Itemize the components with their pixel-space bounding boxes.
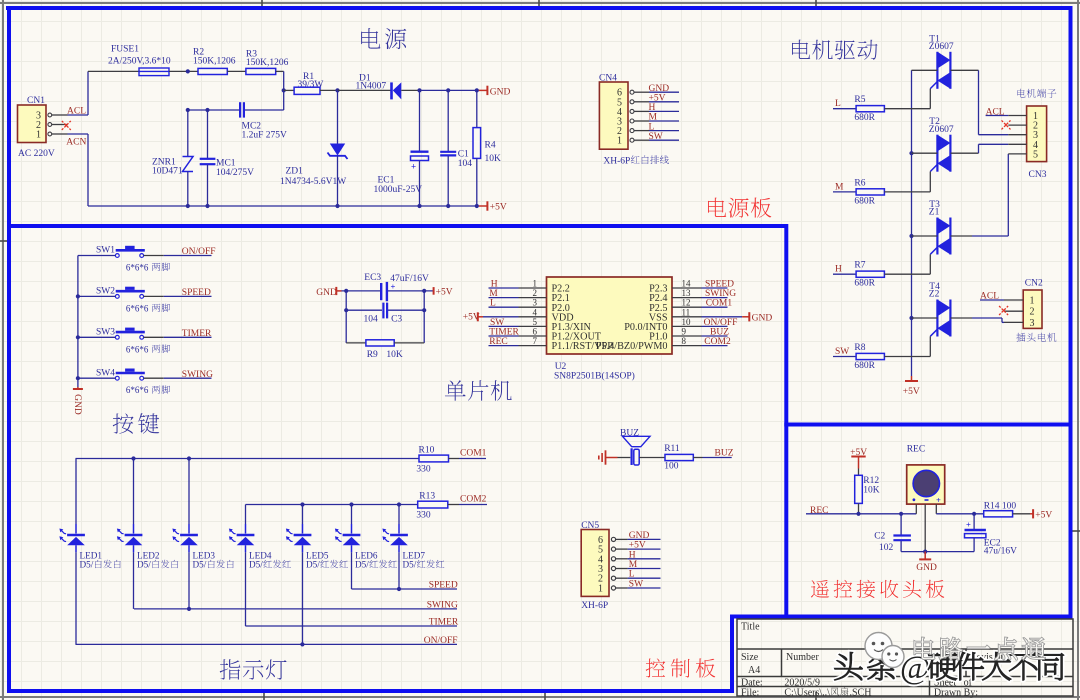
svg-text:GND: GND (72, 394, 82, 415)
wire net H to U2 pin 1 (489, 287, 519, 289)
svg-text:REC: REC (489, 337, 507, 347)
svg-text:9: 9 (682, 327, 687, 337)
svg-text:8: 8 (682, 336, 687, 346)
svg-text:47u/16V: 47u/16V (984, 547, 1017, 557)
svg-text:SW: SW (629, 580, 643, 590)
wire switch common rail (77, 256, 79, 388)
wire U2 pin 12 to net COM1 (702, 306, 728, 308)
wire fuse to R2 (169, 70, 198, 72)
buzzer BUZ (620, 428, 650, 465)
node ZNR1 bottom (186, 204, 190, 208)
no-connect X on CN2 pin2 (999, 306, 1008, 315)
wire LED1 anode/cathode columns (75, 459, 77, 525)
wire CN5 pin 1 net SW (628, 587, 661, 589)
svg-text:100: 100 (664, 462, 679, 472)
board label 遥控接收头板 (811, 580, 829, 598)
svg-text:4: 4 (533, 307, 538, 317)
svg-text:SWING: SWING (182, 370, 213, 380)
wire net SW to U2 pin 5 (489, 325, 519, 327)
svg-text:TIMER: TIMER (489, 328, 519, 338)
connector CN5 (581, 521, 627, 611)
svg-text:47uF/16V: 47uF/16V (390, 274, 429, 284)
svg-text:14: 14 (682, 279, 692, 289)
wire LED4 anode/cathode columns (245, 505, 247, 525)
node LED3/COM1 (187, 456, 191, 460)
wire GND row (remote) (901, 551, 974, 553)
pin 7 P1.1/RST/VPP (519, 345, 547, 347)
svg-text:File:: File: (741, 688, 759, 699)
svg-text:2A/250V,3.6*10: 2A/250V,3.6*10 (108, 57, 171, 67)
wire T2 MT1 (912, 152, 938, 154)
wire U2 pin 9 to net BUZ (702, 335, 728, 337)
svg-text:2: 2 (533, 288, 538, 298)
capacitor MC2 (240, 102, 287, 140)
triac T3 Z1 (929, 200, 951, 255)
svg-text:GND: GND (916, 563, 937, 573)
wire CN5 pin 4 net H (628, 558, 661, 560)
svg-text:P5.4/BZ0/PWM0: P5.4/BZ0/PWM0 (596, 341, 668, 352)
wire +5V rail (bottom of power section) (88, 205, 479, 207)
svg-text:D5/: D5/ (306, 560, 320, 570)
svg-text:12: 12 (682, 298, 691, 308)
svg-text:L: L (629, 570, 635, 580)
resistor R5 (854, 95, 884, 123)
board label 电源板 (708, 198, 726, 217)
svg-text:Number: Number (786, 652, 819, 663)
triac T2 Z0607 (929, 117, 954, 172)
wire CN4 pin 2 net L (649, 130, 679, 132)
connector CN1 (18, 96, 68, 159)
node LED2/COM1 (131, 456, 135, 460)
switch SW4 (96, 368, 170, 395)
wire rail to SW1 (78, 255, 116, 257)
triac T4 Z2 (929, 282, 951, 337)
svg-text:GND: GND (490, 88, 511, 98)
svg-text:SPEED: SPEED (429, 581, 458, 591)
svg-text:1: 1 (533, 279, 538, 289)
svg-text:M: M (649, 113, 658, 123)
svg-text:SN8P2501B(14SOP): SN8P2501B(14SOP) (554, 370, 635, 381)
section title 电机驱动 (792, 40, 810, 59)
svg-text:D5/: D5/ (137, 560, 151, 570)
svg-text:10K: 10K (386, 350, 403, 360)
svg-text:6: 6 (533, 327, 538, 337)
LED LED5 (286, 529, 348, 570)
svg-text:REC: REC (907, 445, 925, 455)
svg-text:COM1: COM1 (706, 299, 733, 309)
wire net COM1 (459, 458, 486, 460)
resistor R8 (854, 343, 884, 371)
svg-text:104: 104 (364, 315, 379, 325)
svg-text:R5: R5 (854, 95, 865, 105)
wire net SPEED row (352, 588, 458, 590)
pin 12 P2.5 (672, 306, 702, 308)
svg-text:H: H (835, 265, 842, 275)
svg-text:680R: 680R (854, 279, 875, 289)
op-amp U2 MCU SN8P2501B (519, 277, 702, 381)
node C3 right (422, 308, 426, 312)
svg-text:Z0607: Z0607 (929, 125, 954, 135)
resistor R7 (854, 261, 884, 289)
wire ground to buzzer (618, 457, 631, 459)
svg-text:10K: 10K (863, 486, 880, 496)
wire R6 to triac gate (884, 191, 930, 193)
svg-text:6*6*6: 6*6*6 (126, 385, 149, 395)
switch SW1 (96, 246, 170, 273)
triac T1 Z0607 (929, 34, 954, 89)
connector CN2 (1004, 279, 1056, 342)
svg-text:TIMER: TIMER (182, 329, 212, 339)
svg-text:680R: 680R (854, 361, 875, 371)
node LED3/SWING (187, 607, 191, 611)
svg-text:D5/: D5/ (193, 560, 207, 570)
svg-text:M: M (629, 560, 638, 570)
node T3 MT1 (909, 234, 913, 238)
svg-text:10D471: 10D471 (152, 167, 183, 177)
wire CN5 pin 3 net M (628, 568, 661, 570)
svg-text:Z1: Z1 (929, 208, 940, 218)
svg-text:R12: R12 (863, 476, 879, 486)
wire CN5 pin 6 net GND (628, 538, 661, 540)
LED LED4 (229, 529, 291, 570)
svg-text:ACN: ACN (66, 138, 86, 148)
wire T1 MT1 to +5V rail (912, 69, 938, 71)
wire CN1 pin3 to fuse rail (68, 114, 89, 116)
svg-text:1: 1 (598, 584, 603, 595)
svg-text:102: 102 (879, 543, 894, 553)
svg-text:R6: R6 (854, 178, 865, 188)
diode D1 1N4007 (338, 74, 420, 100)
resistor R6 (854, 178, 884, 206)
wire M net stub (833, 191, 856, 193)
title block texts (741, 622, 1006, 699)
svg-text:SWING: SWING (705, 289, 736, 299)
wire T4 MT2 to CN2 pin3 (951, 317, 972, 319)
svg-text:GND: GND (752, 313, 773, 323)
wire net ON/OFF row (76, 643, 458, 645)
capacitor C2 (874, 514, 911, 553)
svg-text:SW: SW (490, 318, 504, 328)
svg-text:D5/: D5/ (355, 560, 369, 570)
resistor R12 (855, 469, 880, 514)
varistor ZNR1 (152, 110, 193, 206)
wire GND row to EC3 (342, 290, 381, 292)
svg-text:CN2: CN2 (1025, 279, 1043, 289)
svg-text:R9: R9 (367, 350, 378, 360)
node ZD1 top (335, 88, 339, 92)
resistor R9 (346, 340, 424, 360)
pin 9 P1.0 (672, 335, 702, 337)
wire CN4 pin 4 net H (649, 110, 679, 112)
IR receiver REC (907, 445, 945, 552)
svg-text:150K,1206: 150K,1206 (246, 58, 289, 68)
svg-text:330: 330 (416, 465, 431, 475)
wire rail to SW4 (78, 377, 116, 379)
pin 10 P0.0/INT0 (672, 325, 702, 327)
pin 6 P1.2/XOUT (519, 335, 547, 337)
svg-text:D5/: D5/ (403, 560, 417, 570)
wire R11 to net BUZ (693, 457, 702, 459)
node R12 bottom (856, 512, 860, 516)
watermark 头条@硬件大不同 (dark) (834, 650, 1063, 686)
section title 按键 (113, 413, 134, 433)
section title 电源 (361, 28, 380, 49)
svg-text:ON/OFF: ON/OFF (424, 636, 458, 646)
svg-text:MC1: MC1 (216, 159, 236, 169)
svg-text:GND: GND (316, 288, 337, 298)
pin 8 P5.4/BZ0/PWM0 (672, 345, 702, 347)
wire T4 MT1 (912, 317, 938, 319)
switch SW2 (96, 287, 170, 314)
svg-text:104/275V: 104/275V (216, 168, 254, 178)
node ZD1 bottom (335, 204, 339, 208)
wire C3 row (346, 309, 382, 311)
wire rail to SW2 (78, 295, 116, 297)
node C3 left (344, 308, 348, 312)
wire SW1 to net ON/OFF (144, 255, 164, 257)
resistor R1 (284, 72, 338, 94)
resistor R14 (984, 502, 1030, 517)
wire LED3 anode/cathode columns (188, 459, 190, 525)
svg-text:CN1: CN1 (27, 96, 45, 106)
wire net REC to U2 pin 7 (489, 345, 519, 347)
svg-text:+5V: +5V (1035, 510, 1052, 520)
no-connect X on CN3 pin2 (1002, 120, 1011, 129)
svg-text:+5V: +5V (436, 288, 453, 298)
wire SW4 to net SWING (144, 377, 164, 379)
wire U2 pin 8 to net COM2 (702, 345, 728, 347)
pin 5 P1.3/XIN (519, 325, 547, 327)
svg-text:M: M (835, 182, 844, 192)
svg-text:C2: C2 (874, 532, 885, 542)
svg-text:ON/OFF: ON/OFF (704, 318, 738, 328)
power port +5V (power rail right) (479, 201, 507, 212)
svg-text:SW: SW (649, 132, 663, 142)
no-connect X on CN1 pin 2 (62, 121, 71, 130)
svg-text:XH-6P: XH-6P (603, 157, 630, 167)
wire REC row (806, 513, 916, 515)
LED LED7 (382, 529, 444, 570)
node C1 bottom (446, 204, 450, 208)
node LED5/ONOFF (300, 642, 304, 646)
power port GND (switch rail) (72, 387, 83, 415)
wire T1 MT2 to CN3 pin3 (951, 69, 979, 71)
pin 13 P2.4 (672, 297, 702, 299)
node MC1 top (205, 108, 209, 112)
node T4 MT1 (909, 316, 913, 320)
node R4 top (475, 88, 479, 92)
svg-text:680R: 680R (854, 113, 875, 123)
wire buzzer to R11 (639, 457, 665, 459)
capacitor MC1 (200, 110, 254, 206)
wire SW net stub (833, 356, 856, 358)
svg-text:150K,1206: 150K,1206 (193, 57, 236, 67)
wire L net stub (833, 108, 856, 110)
svg-text:1: 1 (617, 136, 622, 147)
wire net TIMER row (245, 625, 457, 627)
wire CN4 pin 6 net GND (649, 91, 679, 93)
svg-text:AC 220V: AC 220V (18, 149, 55, 159)
svg-text:COM1: COM1 (460, 448, 487, 458)
node R4 bottom (475, 204, 479, 208)
svg-text:GND: GND (649, 84, 670, 94)
svg-text:10K: 10K (485, 154, 502, 164)
pin 4 VDD (519, 316, 547, 318)
wire net M to U2 pin 2 (489, 297, 519, 299)
svg-text:2: 2 (1030, 307, 1035, 318)
svg-text:D5/: D5/ (80, 560, 94, 570)
node EC2 top (972, 512, 976, 516)
svg-text:R13: R13 (419, 491, 435, 501)
svg-text:7: 7 (533, 336, 538, 346)
wire GND rail (top) (420, 89, 479, 91)
wire net COM2 (459, 504, 487, 506)
capacitor C1 (440, 90, 472, 206)
wire CN4 pin 1 net SW (649, 139, 679, 141)
board label 控制板 (646, 659, 666, 678)
wire net TIMER to U2 pin 6 (489, 335, 519, 337)
pin 14 P2.3 (672, 287, 702, 289)
svg-text:L: L (490, 299, 496, 309)
wire EC3 cluster verticals (345, 291, 347, 343)
svg-text:SW2: SW2 (96, 287, 115, 297)
wire REC right pin to R14 (936, 513, 983, 515)
wire SW2 to net SPEED (144, 295, 164, 297)
node MC1 bottom (205, 204, 209, 208)
wire CN5 pin 5 net +5V (628, 548, 661, 550)
section title 指示灯 (220, 659, 241, 679)
svg-text:L: L (835, 99, 841, 109)
svg-text:GND: GND (629, 531, 650, 541)
svg-text:5: 5 (1033, 149, 1038, 160)
wire CN1 pin1 to bottom rail (68, 133, 89, 135)
node ZNR1 top (186, 108, 190, 112)
wire R2 to R3 (227, 70, 246, 72)
svg-text:FUSE1: FUSE1 (111, 45, 139, 55)
svg-text:1N4734-5.6V1W: 1N4734-5.6V1W (280, 177, 346, 187)
svg-text:CN3: CN3 (1029, 170, 1047, 180)
node EC3 left (344, 289, 348, 293)
svg-text:6*6*6: 6*6*6 (126, 263, 149, 273)
wire +5V rail (triac MT1 rail) (911, 70, 913, 376)
LED LED3 (172, 529, 233, 570)
svg-text:6*6*6: 6*6*6 (126, 303, 149, 313)
svg-text:H: H (629, 550, 636, 560)
LED LED6 (335, 529, 397, 570)
node LED7/SPEED (397, 587, 401, 591)
svg-text:+: + (411, 162, 416, 172)
node LED6/COM2 (349, 502, 353, 506)
svg-text:R4: R4 (485, 141, 496, 151)
svg-text:SW1: SW1 (96, 246, 115, 256)
node rail/SW4 (76, 376, 80, 380)
svg-text:Title: Title (741, 622, 760, 633)
svg-text:ON/OFF: ON/OFF (182, 247, 216, 257)
svg-text:COM2: COM2 (460, 494, 487, 504)
svg-text:3: 3 (1030, 318, 1035, 329)
electrolytic capacitor EC2 (965, 514, 1018, 557)
wire R8 to triac gate (884, 356, 930, 358)
capacitor C3 (364, 303, 403, 325)
ground symbol (buzzer) (599, 450, 618, 464)
svg-text:1: 1 (1030, 296, 1035, 307)
switch SW3 (96, 328, 170, 355)
svg-text:R10: R10 (419, 445, 435, 455)
svg-text:C3: C3 (391, 315, 402, 325)
node LED7/COM2 (397, 502, 401, 506)
wire CN4 pin 5 net +5V (649, 101, 679, 103)
section title 单片机 (445, 380, 466, 400)
node fuse/R2 junction (186, 69, 190, 73)
svg-text:+: + (936, 495, 941, 505)
svg-text:R7: R7 (854, 261, 865, 271)
power port GND (U2 VSS) (742, 312, 772, 323)
wire U2 pin 13 to net SWING (702, 297, 728, 299)
wire rail to SW3 (78, 336, 116, 338)
svg-text:11: 11 (682, 307, 691, 317)
power port +5V (U2 VDD pin4) (463, 312, 519, 322)
wire CN5 pin 2 net L (628, 577, 661, 579)
svg-text:SW3: SW3 (96, 328, 115, 338)
power port GND (right of power rail) (479, 86, 511, 98)
svg-text:10: 10 (682, 317, 692, 327)
wire CN4 pin 3 net M (649, 120, 679, 122)
wire net SWING row (134, 608, 457, 610)
power port GND (remote) (916, 552, 937, 573)
svg-text:EC3: EC3 (364, 273, 381, 283)
svg-text:TIMER: TIMER (429, 618, 459, 628)
svg-text:SPEED: SPEED (705, 280, 734, 290)
fuse FUSE1 (88, 45, 171, 76)
svg-text:REC: REC (810, 506, 828, 516)
resistor R13 (416, 491, 459, 520)
connector CN4 (599, 74, 669, 167)
resistor R4 (473, 90, 501, 206)
svg-text:.SCH: .SCH (850, 688, 872, 699)
LED LED1 (59, 529, 120, 570)
node rail/SW2 (76, 294, 80, 298)
svg-text:C:\Users\..\: C:\Users\..\ (784, 688, 830, 699)
svg-text:EC1: EC1 (378, 176, 395, 186)
wire LED2 anode/cathode columns (133, 459, 135, 525)
resistor R10 (416, 445, 459, 474)
node LED5/COM2 (300, 502, 304, 506)
node C1 top (446, 88, 450, 92)
wire R7 to triac gate (884, 273, 930, 275)
wire ACL to CN2 pin1 (980, 299, 1004, 301)
svg-text:A4: A4 (748, 665, 760, 676)
node rail/SW3 (76, 335, 80, 339)
svg-text:+: + (391, 282, 396, 292)
svg-text:M: M (489, 289, 498, 299)
wire SW3 to net TIMER (144, 336, 164, 338)
wire H net stub (833, 273, 856, 275)
svg-text:1000uF-25V: 1000uF-25V (374, 185, 423, 195)
pin 11 VSS (672, 316, 702, 318)
svg-text:Z2: Z2 (929, 290, 940, 300)
svg-text:R8: R8 (854, 343, 865, 353)
title block table (737, 619, 1073, 696)
node EC1 bottom (417, 204, 421, 208)
node T2 MT1 (909, 151, 913, 155)
pin 3 P2.0 (519, 306, 547, 308)
node EC3 right (422, 289, 426, 293)
svg-text:+5V: +5V (649, 94, 666, 104)
node R1 left (282, 88, 286, 92)
LED LED2 (117, 529, 178, 570)
connector CN3 电机端子 (1008, 89, 1056, 180)
power port +5V (decoupling cluster) (434, 287, 453, 298)
